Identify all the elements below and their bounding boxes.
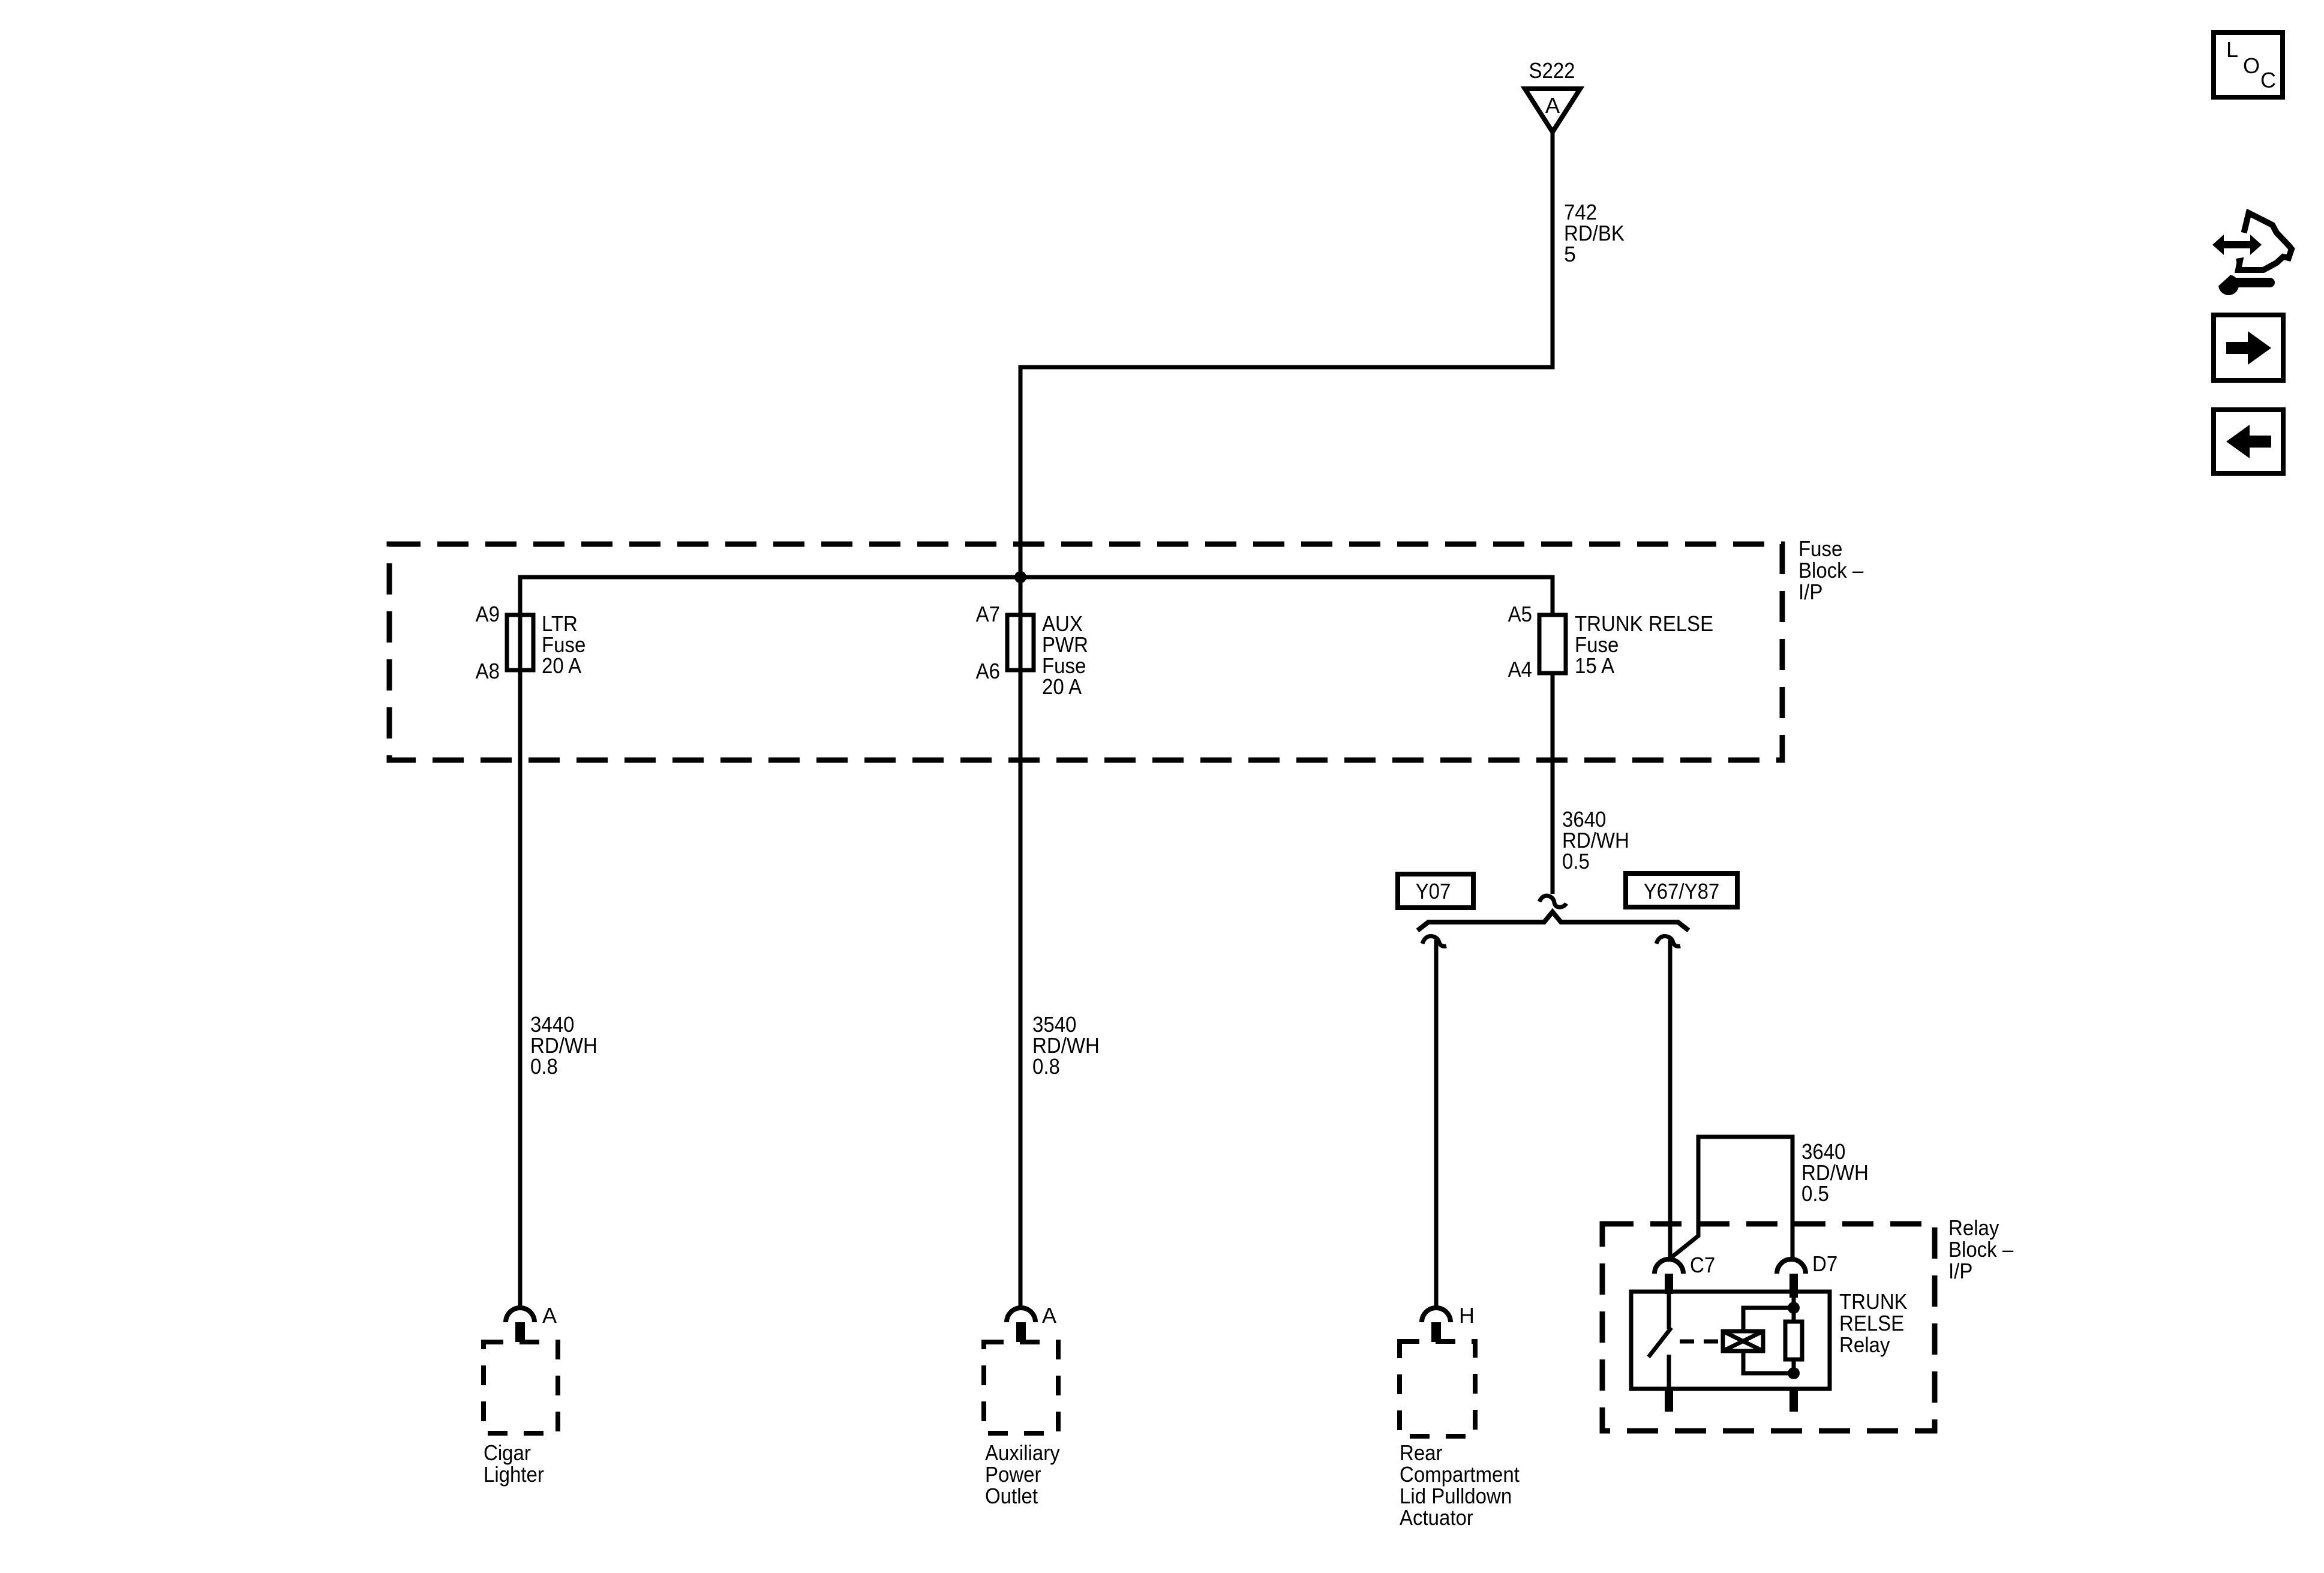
relay coil leads [1743,1308,1794,1373]
svg-text:20 A: 20 A [542,653,581,678]
connector pin auxiliary power outlet stub [1016,1322,1026,1342]
svg-text:Block –: Block – [1798,558,1863,583]
svg-text:S222: S222 [1529,58,1575,83]
connector pin D7 arc [1777,1259,1806,1274]
svg-text:O: O [2243,53,2260,78]
svg-text:A: A [542,1303,557,1328]
wire 3640 RD/WH from fuse to harness split [1551,673,1555,894]
connector pin D7 stub [1789,1274,1798,1298]
wire 3440 RD/WH to cigar lighter [518,615,523,1308]
svg-text:A4: A4 [1508,657,1532,682]
next page arrow icon [2214,315,2283,380]
svg-text:C7: C7 [1690,1253,1715,1277]
svg-text:Y07: Y07 [1416,879,1451,903]
svg-text:Actuator: Actuator [1400,1505,1473,1530]
previous page arrow icon [2214,410,2283,473]
auxiliary power outlet dashed box [984,1342,1058,1433]
relay linkage dashed [1680,1340,1723,1344]
svg-text:Rear: Rear [1400,1440,1443,1465]
splice S222 symbol [1525,89,1580,132]
svg-text:Power: Power [985,1462,1041,1487]
connector option Y07 box [1398,874,1473,908]
rear compartment lid pulldown actuator dashed box [1400,1341,1475,1436]
svg-text:RELSE: RELSE [1839,1311,1904,1335]
node D7/resistor top [1788,1302,1800,1314]
fuse block I/P dashed outline [389,544,1782,760]
wire end curl at split [1539,896,1566,907]
svg-text:5: 5 [1564,242,1576,266]
svg-text:Relay: Relay [1948,1215,1999,1240]
svg-text:Relay: Relay [1839,1332,1890,1357]
right branch start curl [1656,936,1680,947]
connector pin C7 arc [1655,1259,1683,1274]
harness split brace [1418,912,1689,930]
svg-text:A7: A7 [976,602,1000,626]
svg-text:A8: A8 [476,659,500,683]
connector option Y67/Y87 box [1626,873,1737,907]
vehicle service icon: wrench [2212,271,2275,295]
svg-text:Block –: Block – [1948,1237,2013,1262]
wire bus rail from S222 feed [520,577,1553,615]
wire 742 RD/BK from S222 to fuse block [1020,132,1553,577]
fuse TRUNK RELSE 15A (A5/A4) [1539,615,1566,673]
connector pin rear compartment lid pulldown actuator stub [1431,1322,1441,1342]
wire 3540 RD/WH to auxiliary power outlet [1019,577,1023,1308]
svg-text:0.8: 0.8 [1032,1054,1060,1079]
svg-text:Lighter: Lighter [484,1462,544,1487]
svg-text:A: A [1545,93,1560,118]
svg-text:Outlet: Outlet [985,1484,1038,1508]
wire 3640 RD/WH loop C7 to D7 [1671,1137,1792,1257]
svg-text:Y67/Y87: Y67/Y87 [1644,879,1720,903]
svg-text:C: C [2260,68,2276,92]
wire to relay C7 [1668,939,1673,1259]
connector pin cigar lighter stub [515,1322,525,1342]
left branch start curl [1422,936,1446,947]
svg-text:A: A [1042,1303,1056,1328]
vehicle service icon: outline [2236,213,2292,270]
svg-text:D7: D7 [1812,1251,1837,1276]
relay TRUNK RELSE box [1631,1292,1830,1389]
fuse AUX PWR 20A (A7/A6) [1007,615,1034,670]
connector pin auxiliary power outlet arc [1007,1308,1035,1322]
svg-text:TRUNK: TRUNK [1839,1289,1908,1314]
svg-text:0.8: 0.8 [530,1054,558,1079]
svg-text:0.5: 0.5 [1562,849,1590,873]
connector pin cigar lighter arc [506,1308,535,1322]
relay bottom stub right [1789,1389,1798,1412]
relay resistor [1785,1322,1802,1359]
svg-text:20 A: 20 A [1042,674,1082,699]
svg-text:I/P: I/P [1948,1259,1972,1283]
svg-text:A6: A6 [976,659,1000,683]
connector pin rear compartment lid pulldown actuator arc [1422,1308,1451,1322]
svg-text:L: L [2226,37,2238,62]
svg-text:I/P: I/P [1798,580,1822,604]
vehicle service icon: double arrow [2212,235,2262,255]
relay block I/P dashed outline [1602,1224,1935,1431]
svg-text:15 A: 15 A [1575,653,1614,678]
svg-text:Compartment: Compartment [1400,1462,1520,1487]
svg-text:H: H [1459,1303,1475,1328]
fuse LTR 20A (A9/A8) [507,615,533,670]
relay coil box [1723,1331,1763,1351]
svg-text:0.5: 0.5 [1801,1181,1829,1206]
wire to rear compartment actuator [1434,939,1439,1308]
svg-text:Fuse: Fuse [1798,536,1842,561]
svg-text:A9: A9 [476,602,500,626]
junction node on rail [1014,571,1026,583]
LOC page icon [2214,32,2283,97]
svg-text:Cigar: Cigar [484,1440,531,1465]
svg-text:Auxiliary: Auxiliary [985,1440,1060,1465]
cigar lighter dashed box [484,1342,558,1433]
connector pin C7 stub [1665,1274,1673,1294]
relay bottom stub left [1665,1389,1673,1412]
resistor leads and D7 feed [1792,1296,1796,1373]
svg-text:Lid Pulldown: Lid Pulldown [1400,1484,1512,1508]
svg-text:A5: A5 [1508,602,1532,626]
relay switch [1649,1292,1671,1389]
node resistor bottom [1788,1367,1800,1379]
